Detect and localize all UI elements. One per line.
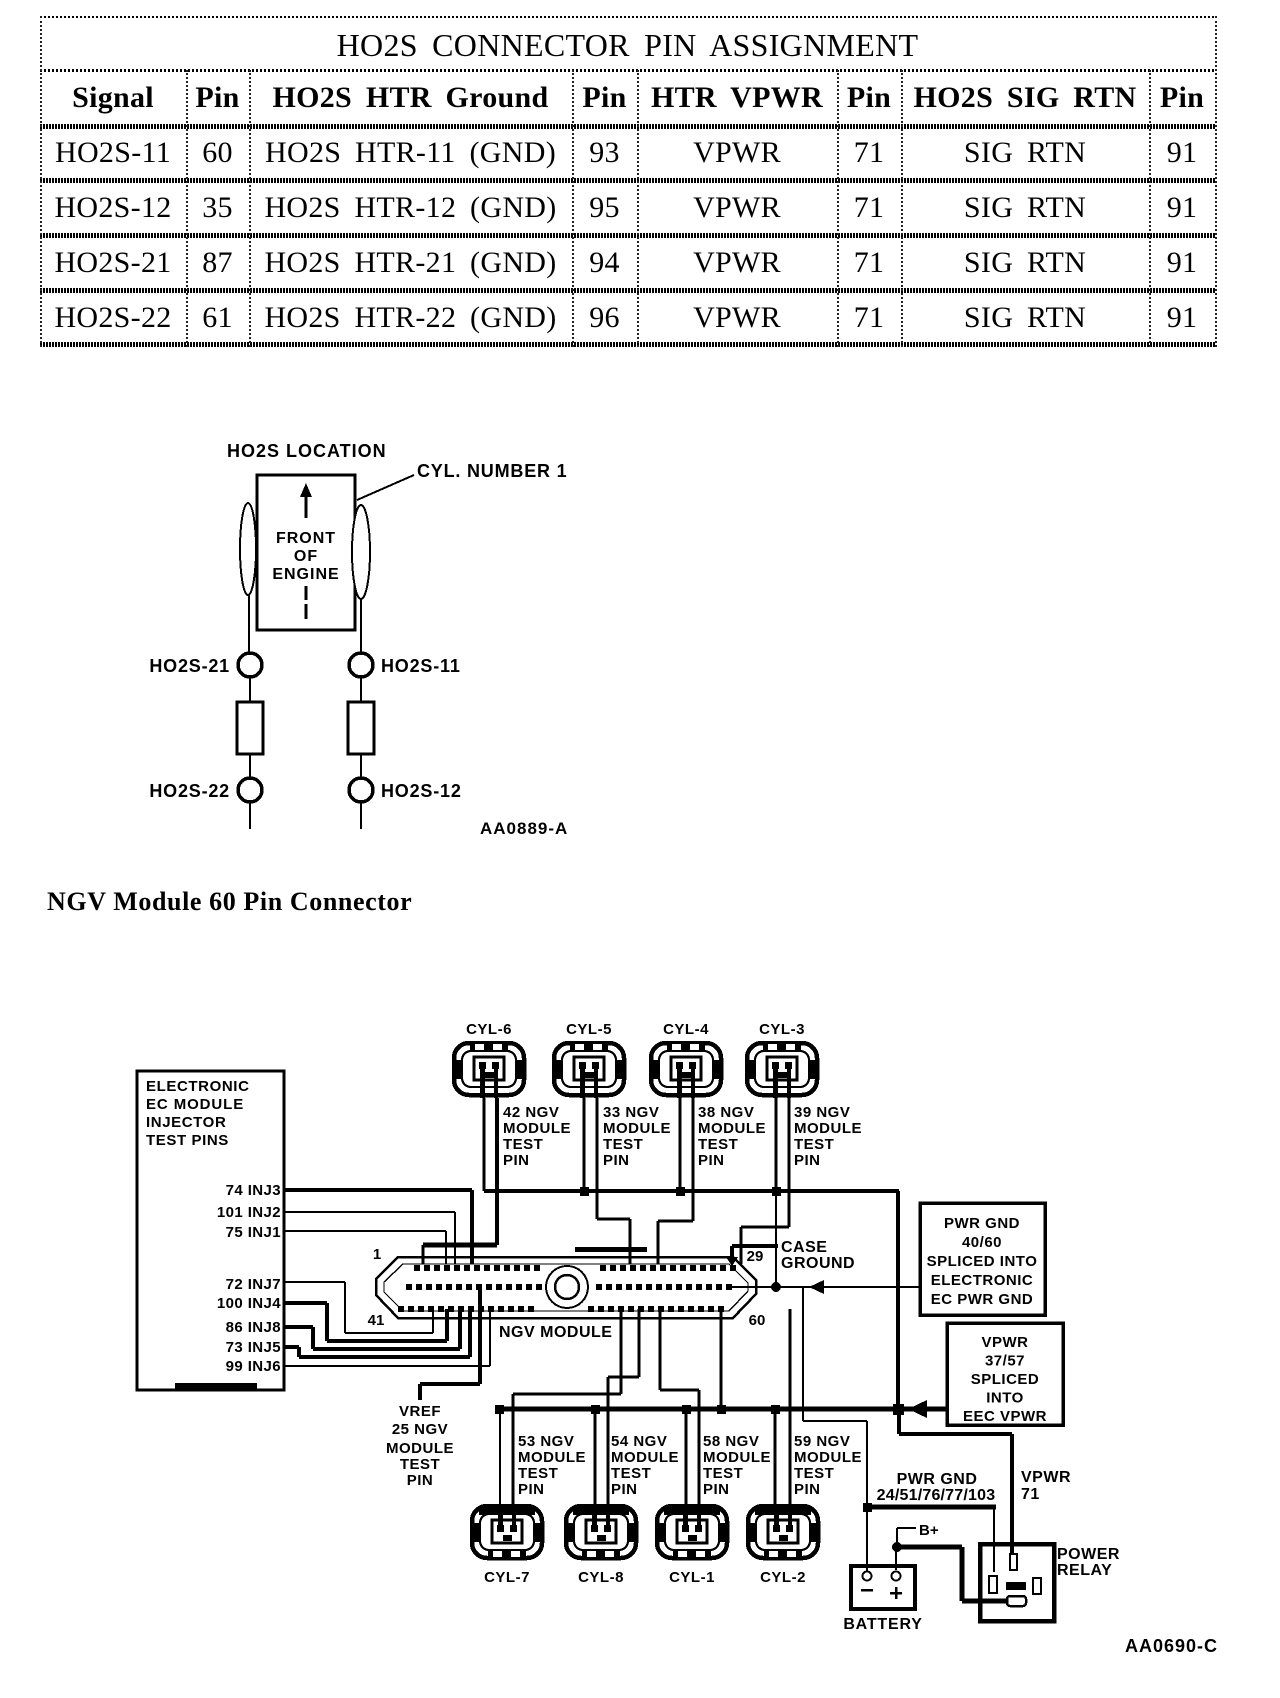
svg-text:38 NGV: 38 NGV	[698, 1104, 754, 1121]
svg-text:MODULE: MODULE	[603, 1120, 671, 1137]
svg-text:42 NGV: 42 NGV	[503, 1104, 559, 1121]
svg-text:24/51/76/77/103: 24/51/76/77/103	[877, 1487, 996, 1504]
svg-text:OF: OF	[294, 548, 318, 565]
svg-text:72 INJ7: 72 INJ7	[226, 1276, 281, 1293]
svg-text:PIN: PIN	[603, 1152, 630, 1169]
svg-text:PIN: PIN	[703, 1481, 730, 1498]
svg-text:CASE: CASE	[781, 1239, 827, 1256]
svg-text:MODULE: MODULE	[386, 1440, 454, 1457]
svg-text:HO2S LOCATION: HO2S LOCATION	[227, 441, 387, 461]
svg-text:100 INJ4: 100 INJ4	[217, 1295, 281, 1312]
svg-text:59 NGV: 59 NGV	[794, 1433, 850, 1450]
svg-text:MODULE: MODULE	[518, 1449, 586, 1466]
svg-text:HO2S-11: HO2S-11	[381, 656, 461, 676]
svg-text:MODULE: MODULE	[698, 1120, 766, 1137]
svg-text:HO2S-12: HO2S-12	[381, 781, 462, 801]
svg-text:101 INJ2: 101 INJ2	[217, 1204, 281, 1221]
svg-text:TEST: TEST	[703, 1465, 743, 1482]
svg-text:B+: B+	[919, 1522, 939, 1539]
svg-text:CYL. NUMBER 1: CYL. NUMBER 1	[417, 461, 567, 481]
svg-text:SPLICED INTO: SPLICED INTO	[927, 1253, 1038, 1270]
svg-text:PIN: PIN	[503, 1152, 530, 1169]
svg-text:TEST PINS: TEST PINS	[146, 1132, 229, 1149]
svg-text:HO2S-22: HO2S-22	[149, 781, 230, 801]
svg-text:AA0690-C: AA0690-C	[1125, 1636, 1218, 1656]
svg-text:58 NGV: 58 NGV	[703, 1433, 759, 1450]
svg-text:86 INJ8: 86 INJ8	[226, 1319, 281, 1336]
svg-text:25 NGV: 25 NGV	[392, 1421, 448, 1438]
svg-text:MODULE: MODULE	[611, 1449, 679, 1466]
svg-text:CYL-4: CYL-4	[663, 1021, 709, 1038]
svg-text:PIN: PIN	[794, 1152, 821, 1169]
svg-text:AA0889-A: AA0889-A	[480, 819, 568, 838]
svg-text:ENGINE: ENGINE	[272, 566, 339, 583]
svg-text:PWR GND: PWR GND	[897, 1471, 978, 1488]
svg-text:FRONT: FRONT	[276, 530, 336, 547]
svg-text:PIN: PIN	[698, 1152, 725, 1169]
svg-text:VPWR: VPWR	[982, 1334, 1029, 1351]
svg-text:TEST: TEST	[400, 1456, 440, 1473]
svg-text:EC PWR GND: EC PWR GND	[931, 1291, 1034, 1308]
svg-text:PIN: PIN	[518, 1481, 545, 1498]
svg-text:75 INJ1: 75 INJ1	[226, 1224, 281, 1241]
svg-text:40/60: 40/60	[962, 1234, 1002, 1251]
svg-text:BATTERY: BATTERY	[843, 1616, 922, 1633]
svg-text:TEST: TEST	[698, 1136, 738, 1153]
svg-text:PIN: PIN	[407, 1472, 434, 1489]
svg-text:NGV MODULE: NGV MODULE	[499, 1324, 612, 1341]
svg-text:1: 1	[373, 1246, 381, 1263]
svg-text:TEST: TEST	[611, 1465, 651, 1482]
svg-text:MODULE: MODULE	[794, 1449, 862, 1466]
svg-text:CYL-3: CYL-3	[759, 1021, 805, 1038]
svg-text:33 NGV: 33 NGV	[603, 1104, 659, 1121]
svg-text:CYL-2: CYL-2	[760, 1569, 806, 1586]
svg-text:CYL-5: CYL-5	[566, 1021, 612, 1038]
svg-text:99 INJ6: 99 INJ6	[226, 1358, 281, 1375]
svg-text:PWR GND: PWR GND	[944, 1215, 1020, 1232]
svg-text:TEST: TEST	[518, 1465, 558, 1482]
svg-text:74 INJ3: 74 INJ3	[226, 1182, 281, 1199]
svg-text:MODULE: MODULE	[703, 1449, 771, 1466]
svg-text:53 NGV: 53 NGV	[518, 1433, 574, 1450]
svg-text:INJECTOR: INJECTOR	[146, 1114, 226, 1131]
svg-text:SPLICED: SPLICED	[971, 1371, 1040, 1388]
svg-text:RELAY: RELAY	[1057, 1562, 1112, 1579]
svg-text:37/57: 37/57	[985, 1353, 1025, 1370]
svg-text:CYL-8: CYL-8	[578, 1569, 624, 1586]
svg-text:VPWR: VPWR	[1021, 1469, 1071, 1486]
svg-text:POWER: POWER	[1057, 1546, 1120, 1563]
svg-text:TEST: TEST	[794, 1465, 834, 1482]
svg-text:71: 71	[1021, 1486, 1040, 1503]
svg-text:CYL-1: CYL-1	[669, 1569, 715, 1586]
svg-text:29: 29	[747, 1248, 764, 1265]
svg-text:ELECTRONIC: ELECTRONIC	[146, 1078, 250, 1095]
svg-text:GROUND: GROUND	[781, 1255, 855, 1272]
svg-text:EC MODULE: EC MODULE	[146, 1096, 244, 1113]
svg-text:HO2S-21: HO2S-21	[149, 656, 230, 676]
svg-text:60: 60	[749, 1312, 766, 1329]
svg-text:CYL-7: CYL-7	[484, 1569, 530, 1586]
svg-text:MODULE: MODULE	[503, 1120, 571, 1137]
svg-text:TEST: TEST	[503, 1136, 543, 1153]
svg-text:ELECTRONIC: ELECTRONIC	[931, 1272, 1034, 1289]
svg-text:39 NGV: 39 NGV	[794, 1104, 850, 1121]
svg-text:54 NGV: 54 NGV	[611, 1433, 667, 1450]
svg-text:TEST: TEST	[603, 1136, 643, 1153]
svg-text:MODULE: MODULE	[794, 1120, 862, 1137]
svg-text:CYL-6: CYL-6	[466, 1021, 512, 1038]
svg-text:PIN: PIN	[611, 1481, 638, 1498]
svg-text:73 INJ5: 73 INJ5	[226, 1339, 281, 1356]
svg-text:EEC VPWR: EEC VPWR	[963, 1408, 1047, 1425]
svg-text:41: 41	[368, 1312, 385, 1329]
svg-text:TEST: TEST	[794, 1136, 834, 1153]
svg-text:VREF: VREF	[399, 1403, 441, 1420]
svg-text:PIN: PIN	[794, 1481, 821, 1498]
svg-text:INTO: INTO	[986, 1390, 1024, 1407]
